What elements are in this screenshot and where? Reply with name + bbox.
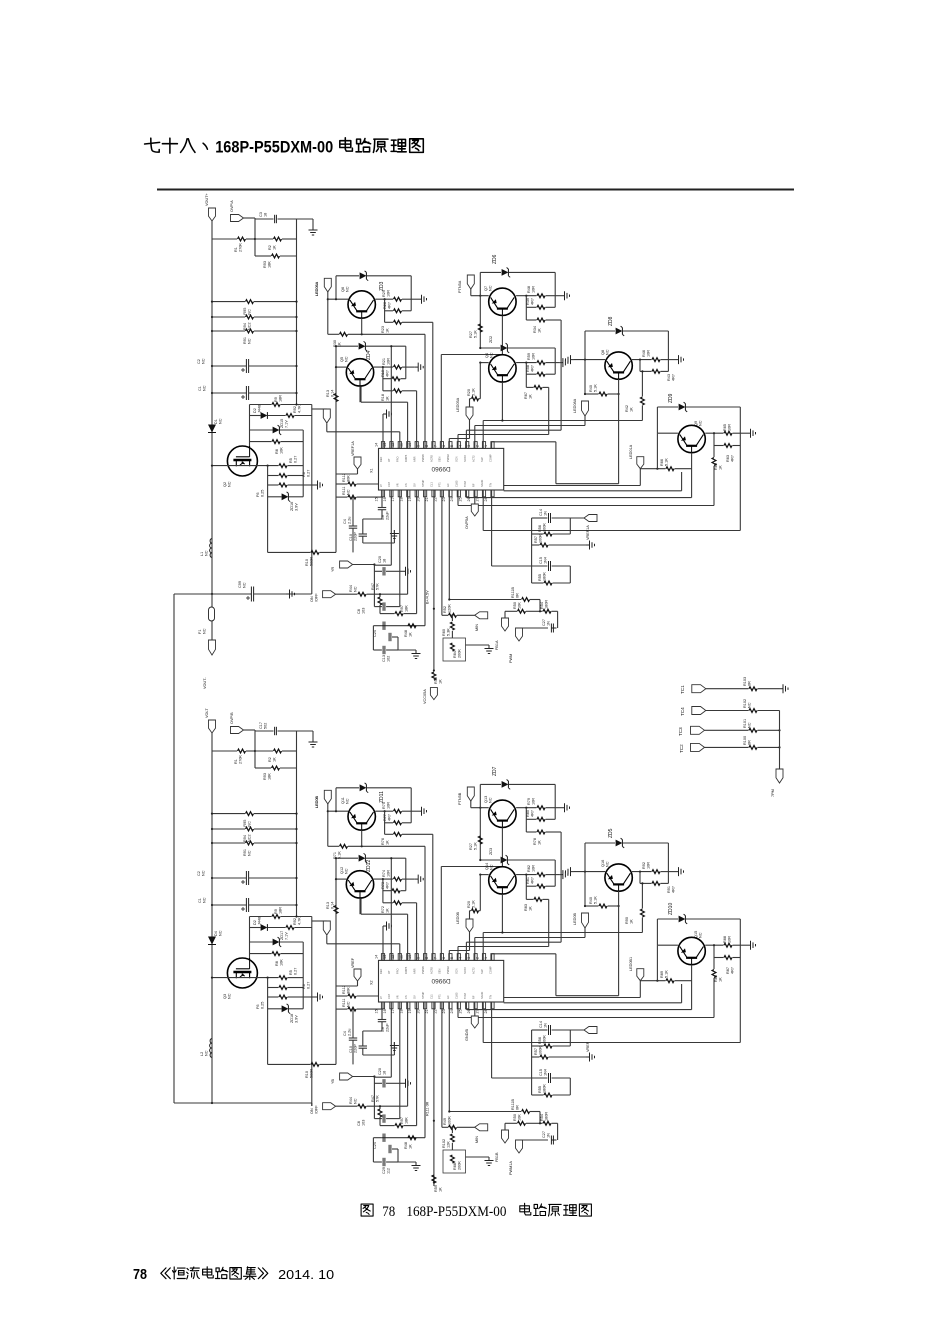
pin 8 <box>425 442 435 462</box>
transistor Q5 <box>340 356 374 386</box>
svg-text:R13: R13 <box>326 390 330 397</box>
svg-text:18R: 18R <box>278 395 282 402</box>
svg-text:R59: R59 <box>527 353 531 360</box>
connector GND/B <box>465 1002 478 1041</box>
capacitor C20 <box>374 556 410 576</box>
svg-text:F6: F6 <box>256 1005 260 1009</box>
svg-text:NC: NC <box>227 481 231 487</box>
svg-text:R111: R111 <box>342 486 346 495</box>
svg-text:R65: R65 <box>723 424 727 431</box>
resistor R75 <box>375 802 418 813</box>
resistor R9 <box>250 907 312 919</box>
resistor F6 <box>256 995 303 1009</box>
svg-text:R44: R44 <box>349 1097 353 1104</box>
svg-text:R9: R9 <box>274 909 278 914</box>
wire source row <box>211 977 258 979</box>
svg-text:180K: 180K <box>542 1084 546 1093</box>
svg-text:VOLT: VOLT <box>205 708 209 718</box>
pin 28 <box>484 995 494 1014</box>
wire loop right <box>410 276 412 311</box>
svg-text:R56: R56 <box>538 525 542 532</box>
svg-text:R91: R91 <box>667 886 671 893</box>
wire snubber col2 <box>302 942 304 1009</box>
pin 12 <box>391 442 401 462</box>
svg-text:PTN5B: PTN5B <box>458 792 462 805</box>
svg-text:0.25: 0.25 <box>260 490 264 497</box>
svg-text:Q12: Q12 <box>340 867 344 874</box>
svg-text:57K: 57K <box>375 583 379 590</box>
svg-text:VCC05A: VCC05A <box>423 689 427 704</box>
svg-text:C14: C14 <box>539 1021 543 1028</box>
svg-text:R101: R101 <box>743 719 747 728</box>
resistor R5 <box>257 456 303 468</box>
svg-text:ZD17: ZD17 <box>280 931 284 940</box>
svg-text:R40: R40 <box>589 897 593 904</box>
svg-text:ZD12: ZD12 <box>366 860 372 872</box>
svg-text:Q16: Q16 <box>601 860 605 867</box>
svg-text:NC: NC <box>218 418 222 424</box>
zener ZD5 <box>585 828 668 848</box>
zener ZD12 <box>335 853 406 872</box>
svg-text:R49: R49 <box>443 1118 447 1125</box>
wire base <box>471 784 489 860</box>
pin 2 <box>475 442 485 462</box>
ground <box>286 590 295 599</box>
svg-text:R89: R89 <box>660 971 664 978</box>
ground <box>418 807 427 816</box>
zener ZD15 <box>250 419 304 435</box>
svg-text:ZD3: ZD3 <box>379 281 385 291</box>
pin 4 <box>459 442 469 462</box>
svg-text:PWM2: PWM2 <box>446 454 450 462</box>
resistor R18 <box>381 389 417 401</box>
svg-text:1N4: 1N4 <box>543 1069 547 1076</box>
svg-text:R92: R92 <box>293 918 297 925</box>
resistor R27 <box>469 836 482 850</box>
svg-text:D2: D2 <box>253 920 257 925</box>
svg-text:NC: NC <box>202 628 206 634</box>
svg-text:OVP/B: OVP/B <box>230 712 234 724</box>
svg-text:10R: 10R <box>646 862 650 869</box>
svg-text:12K: 12K <box>446 1141 450 1148</box>
wire base <box>657 407 678 433</box>
pin 8 <box>425 954 435 974</box>
wire pin1 <box>492 442 619 484</box>
connector VCC05A <box>423 688 437 704</box>
connector LED01A <box>629 444 644 468</box>
zener ZD8 <box>585 316 668 336</box>
svg-text:200K: 200K <box>457 649 461 658</box>
transistor Q16 <box>601 860 632 891</box>
pin 18 <box>400 483 410 501</box>
svg-text:Q9: Q9 <box>694 421 698 426</box>
connector LED06A <box>312 281 331 423</box>
wire pin21 B+ <box>426 490 436 672</box>
resistor R66 <box>640 433 691 470</box>
svg-text:R66: R66 <box>660 459 664 466</box>
svg-text:R86: R86 <box>714 975 718 982</box>
svg-text:L1: L1 <box>200 552 204 556</box>
svg-text:NC: NC <box>201 870 205 876</box>
footer <box>133 1266 334 1283</box>
svg-text:SLP: SLP <box>480 969 484 974</box>
svg-text:TOM: TOM <box>463 993 467 999</box>
svg-text:1K: 1K <box>408 632 412 637</box>
svg-text:10R: 10R <box>727 936 731 943</box>
wire pin13 <box>390 346 392 448</box>
svg-text:R93: R93 <box>263 773 267 780</box>
svg-text:500R: 500R <box>309 1069 313 1078</box>
svg-text:0.14: 0.14 <box>330 390 334 397</box>
wire knot box <box>373 626 416 655</box>
zener ZD11 <box>336 783 411 803</box>
svg-text:10R: 10R <box>386 290 390 297</box>
svg-text:1K: 1K <box>718 465 722 470</box>
svg-text:RMP5: RMP5 <box>404 966 408 974</box>
svg-text:TC1: TC1 <box>680 685 685 694</box>
ground <box>418 295 427 304</box>
resistor R73 <box>381 858 406 903</box>
wire pin25 H4 <box>466 490 691 498</box>
svg-text:SLP: SLP <box>480 457 484 462</box>
connector TC3 <box>678 726 705 736</box>
wire emitter <box>501 382 503 422</box>
pin 23 <box>442 483 452 501</box>
svg-text:R6: R6 <box>302 984 306 989</box>
svg-text:1N: 1N <box>546 1133 550 1138</box>
svg-text:R48: R48 <box>527 286 531 293</box>
svg-text:CS: CS <box>404 995 408 999</box>
svg-text:25: 25 <box>459 1009 463 1013</box>
resistor R1 <box>212 749 256 764</box>
svg-text:TC4: TC4 <box>680 707 685 716</box>
resistor R102 <box>706 699 780 712</box>
wire pin22 <box>442 490 448 615</box>
svg-text:R1: R1 <box>234 247 238 252</box>
svg-text:0R: 0R <box>747 740 751 745</box>
svg-text:500R: 500R <box>309 557 313 566</box>
svg-text:1K: 1K <box>385 840 389 845</box>
svg-text:Q11: Q11 <box>341 797 345 804</box>
pin 3 <box>467 954 477 974</box>
svg-text:220P: 220P <box>353 532 357 541</box>
resistor R8 <box>250 440 304 454</box>
svg-text:R23: R23 <box>381 326 385 333</box>
svg-text:R10: R10 <box>305 1071 309 1078</box>
ground <box>297 731 318 747</box>
wire base <box>657 919 678 945</box>
svg-text:ON: ON <box>310 596 314 602</box>
svg-text:1K: 1K <box>385 328 389 333</box>
svg-text:R60: R60 <box>442 629 446 636</box>
svg-text:1K: 1K <box>629 919 633 924</box>
svg-text:CAT: CAT <box>387 994 391 999</box>
wire pin12 <box>327 432 400 449</box>
pin 7 <box>433 442 443 462</box>
svg-text:C99: C99 <box>238 581 242 588</box>
wire pin8 <box>432 322 434 448</box>
capacitor C99 <box>174 581 312 601</box>
wire pin19 <box>416 1002 418 1126</box>
wire emitter <box>359 386 361 402</box>
svg-text:Q15: Q15 <box>694 931 698 938</box>
wire pin18 <box>407 1002 409 1106</box>
wire emitter <box>618 891 620 996</box>
svg-text:168P-P55DXM-00: 168P-P55DXM-00 <box>406 1204 506 1220</box>
connector TC4 <box>680 707 706 717</box>
svg-text:4R7: 4R7 <box>730 455 734 462</box>
connector LED0B <box>312 796 331 935</box>
svg-text:C14: C14 <box>539 509 543 516</box>
capacitor C14 <box>532 509 584 583</box>
svg-text:PWM2: PWM2 <box>446 966 450 974</box>
resistor R90 <box>625 882 644 932</box>
svg-text:VR: VR <box>396 995 400 999</box>
wire pin6 <box>449 420 469 448</box>
svg-text:PT1: PT1 <box>438 994 442 999</box>
svg-text:NC: NC <box>247 338 251 344</box>
svg-text:2014. 10: 2014. 10 <box>278 1267 334 1282</box>
resistor R43 <box>640 331 675 381</box>
pin 10 <box>408 954 418 974</box>
svg-text:R50: R50 <box>513 1114 517 1121</box>
svg-text:5.1K: 5.1K <box>593 896 597 904</box>
svg-text:R55: R55 <box>538 1086 542 1093</box>
capacitor C27 <box>519 1123 558 1144</box>
resistor R63 <box>714 407 740 462</box>
svg-text:PWM5: PWM5 <box>421 454 425 462</box>
resistor R76 <box>381 832 433 845</box>
svg-text:R95: R95 <box>243 308 247 315</box>
resistor R52 <box>443 604 475 618</box>
diode D2 <box>250 917 286 931</box>
svg-text:VOUT+: VOUT+ <box>205 192 209 206</box>
svg-text:10R: 10R <box>646 350 650 357</box>
svg-text:1K: 1K <box>438 679 442 684</box>
svg-text:ZD9: ZD9 <box>668 393 674 403</box>
svg-text:1K: 1K <box>718 977 722 982</box>
wire pin15 <box>382 490 384 497</box>
resistor R47 <box>371 1095 382 1126</box>
svg-text:10K: 10K <box>517 602 521 609</box>
resistor R86 <box>712 958 722 1018</box>
svg-text:R34: R34 <box>533 326 537 333</box>
resistor R34 <box>526 318 561 333</box>
wire base <box>574 331 605 394</box>
pin 9 <box>417 442 427 462</box>
svg-text:CL1: CL1 <box>429 994 433 999</box>
pin 14 <box>374 442 384 462</box>
svg-text:R87: R87 <box>726 967 730 974</box>
svg-text:22uF: 22uF <box>385 1023 389 1032</box>
svg-text:R48: R48 <box>404 630 408 637</box>
connector TC2 <box>679 743 705 753</box>
svg-text:SCN: SCN <box>455 456 459 462</box>
wire pin11 <box>361 898 408 960</box>
svg-text:R76: R76 <box>381 838 385 845</box>
ground <box>303 993 322 1002</box>
resistor R89 <box>640 945 691 982</box>
wire loop left <box>335 276 337 299</box>
svg-text:ZD15: ZD15 <box>280 419 284 428</box>
wire base row <box>335 878 346 880</box>
connector VOUT- <box>203 640 216 689</box>
svg-text:1K: 1K <box>537 328 541 333</box>
svg-text:C13: C13 <box>382 655 386 662</box>
wire pin11 <box>361 386 408 448</box>
wire pin18 <box>407 490 409 594</box>
zener ZD17 <box>250 931 304 947</box>
ground <box>415 875 424 884</box>
resistor R6 <box>268 470 311 478</box>
svg-text:19: 19 <box>408 1009 412 1013</box>
connector LED0B <box>315 790 331 808</box>
svg-text:4R7: 4R7 <box>387 814 391 821</box>
svg-text:J448: J448 <box>257 917 261 925</box>
pin 26 <box>467 483 477 501</box>
resistor R20 <box>467 875 480 913</box>
pin 1 <box>484 954 494 974</box>
fuse F1 <box>198 594 215 640</box>
svg-text:STMP: STMP <box>421 480 425 487</box>
svg-text:R64: R64 <box>453 651 457 658</box>
resistor R103 <box>706 677 780 691</box>
resistor R20 <box>467 363 480 401</box>
svg-text:78: 78 <box>382 1204 395 1220</box>
svg-text:VREF1A: VREF1A <box>351 441 355 456</box>
resistor R80 <box>526 784 555 832</box>
svg-text:R59: R59 <box>434 1185 438 1192</box>
wire emitter <box>359 898 361 914</box>
svg-text:PT1: PT1 <box>438 482 442 487</box>
svg-text:C10: C10 <box>349 534 353 541</box>
pin 4 <box>459 954 469 974</box>
pin 17 <box>391 995 401 1013</box>
svg-text:18R: 18R <box>278 907 282 914</box>
svg-text:R102: R102 <box>442 1139 446 1148</box>
pin 16 <box>383 482 393 502</box>
svg-text:NC: NC <box>227 993 231 999</box>
svg-text:100K: 100K <box>538 534 542 543</box>
ground <box>390 530 399 543</box>
transistor Q14 <box>485 863 516 894</box>
svg-text:COMP: COMP <box>488 454 492 462</box>
svg-text:D9960: D9960 <box>431 977 451 984</box>
resistor R65 <box>705 424 747 435</box>
resistor R54 <box>539 600 558 614</box>
wire loop right <box>410 788 412 823</box>
connector YR <box>331 561 376 572</box>
zener ZD9 <box>657 393 740 412</box>
resistor R54 <box>539 1112 558 1126</box>
svg-text:C10: C10 <box>349 1046 353 1053</box>
svg-text:Q4: Q4 <box>485 353 489 358</box>
svg-text:R5: R5 <box>289 970 293 975</box>
wire LED col <box>327 292 329 334</box>
resistor R92 <box>632 862 675 874</box>
svg-text:LT: LT <box>379 484 383 487</box>
svg-text:R50: R50 <box>513 602 517 609</box>
svg-text:2.2u: 2.2u <box>347 1029 351 1036</box>
wire pin28 <box>492 490 548 566</box>
capacitor C29 <box>382 1167 390 1174</box>
svg-text:R54: R54 <box>540 1114 544 1121</box>
pin 23 <box>442 995 452 1013</box>
svg-text:180K: 180K <box>542 572 546 581</box>
svg-text:NC: NC <box>698 420 702 426</box>
pin 25 <box>459 481 469 501</box>
svg-text:16: 16 <box>383 1009 387 1013</box>
svg-text:GND/B: GND/B <box>465 1029 469 1041</box>
resistor R68 <box>443 1150 466 1173</box>
svg-text:NC: NC <box>202 385 206 391</box>
wire pin10 <box>416 391 418 449</box>
wire pin27 H6 <box>483 958 740 1043</box>
svg-text:1K: 1K <box>629 407 633 412</box>
pin 11 <box>400 954 410 974</box>
svg-text:R111: R111 <box>342 998 346 1007</box>
resistor R40 <box>584 384 620 396</box>
inductor L1 <box>200 539 212 558</box>
svg-text:57K: 57K <box>375 1095 379 1102</box>
svg-text:SCP2: SCP2 <box>463 967 467 974</box>
wire pin23 knot <box>448 1002 521 1113</box>
svg-text:R97: R97 <box>400 1117 404 1124</box>
resistor R64 <box>443 638 466 661</box>
svg-text:/OFF: /OFF <box>314 593 318 602</box>
ground <box>466 645 494 654</box>
svg-text:NC: NC <box>488 797 492 803</box>
svg-text:MIN: MIN <box>475 624 479 631</box>
resistor R72 <box>381 901 417 913</box>
svg-text:NC: NC <box>204 550 208 556</box>
svg-text:100K: 100K <box>542 523 546 532</box>
svg-text:C2: C2 <box>197 359 201 364</box>
wire base row <box>328 810 348 812</box>
resistor R94 <box>211 827 298 842</box>
connector FB1A <box>495 611 509 650</box>
pin 13 <box>383 442 393 462</box>
pin 20 <box>417 992 427 1014</box>
svg-text:OVP/A: OVP/A <box>230 200 234 212</box>
connector VREF <box>584 1027 597 1053</box>
wire TC bus <box>779 711 781 770</box>
zener ZD3 <box>479 855 555 865</box>
svg-text:0.27: 0.27 <box>306 470 310 477</box>
resistor R111 <box>336 998 383 1011</box>
wire pin13 <box>390 858 392 960</box>
wire knot box <box>373 1138 416 1167</box>
svg-text:0R: 0R <box>515 1105 519 1110</box>
svg-text:MIN: MIN <box>475 1136 479 1143</box>
svg-text:VREF1A: VREF1A <box>586 525 590 540</box>
svg-text:D9960: D9960 <box>431 465 451 472</box>
wire emitter <box>691 453 693 498</box>
connector LED0B <box>573 913 589 928</box>
wire snubber col2 <box>302 430 304 497</box>
ground <box>390 1042 399 1055</box>
svg-text:TC3: TC3 <box>678 727 683 736</box>
svg-text:1N4: 1N4 <box>543 557 547 564</box>
svg-text:100K: 100K <box>447 1116 451 1125</box>
svg-text:7.1V: 7.1V <box>284 420 288 428</box>
svg-text:LED0B: LED0B <box>573 913 577 925</box>
transistor Q11 <box>341 797 375 830</box>
svg-text:R92: R92 <box>642 862 646 869</box>
svg-text:4.7K: 4.7K <box>297 405 301 413</box>
svg-text:R97: R97 <box>400 605 404 612</box>
capacitor C9 <box>363 1009 390 1046</box>
